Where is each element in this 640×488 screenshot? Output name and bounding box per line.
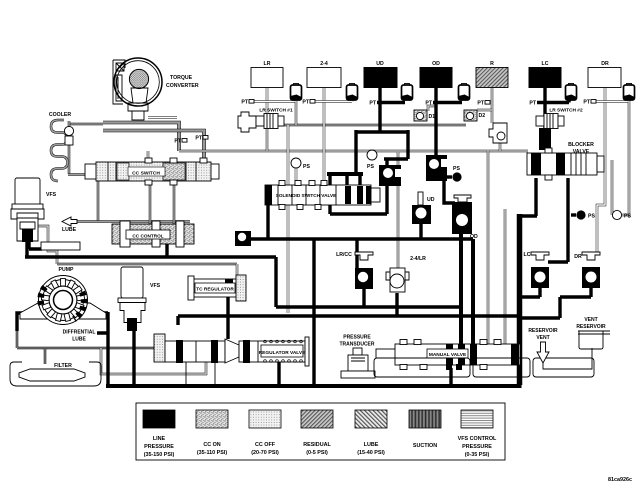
wire: LR clutch feed pipe	[266, 88, 269, 114]
valve REGULATOR VALVE	[154, 334, 309, 366]
wire: UD pressure tap bar	[377, 101, 405, 104]
pump inlet pipe	[41, 242, 80, 250]
wire: PS stub above solenoid switch valve	[295, 168, 298, 185]
relief valve on R line	[489, 123, 507, 143]
svg-text:TC REGULATOR: TC REGULATOR	[196, 287, 234, 293]
wire: blocker valve outlet drop	[520, 178, 537, 216]
wire: VFS2 output drop	[132, 330, 135, 386]
wire: LR pressure tap tee	[252, 99, 296, 102]
pressure transducer	[340, 335, 376, 379]
svg-text:REGULATOR VALVE: REGULATOR VALVE	[259, 350, 306, 356]
wire: OD ball outlet to manual valve	[459, 234, 463, 344]
svg-text:DR: DR	[601, 61, 609, 67]
wire: cooler outlet to lube line	[68, 175, 98, 222]
wire: DR clutch feed pipe	[597, 88, 605, 252]
svg-text:VFS: VFS	[46, 192, 57, 198]
legend swatch CC OFF	[249, 410, 281, 456]
check ball box 2	[426, 155, 447, 181]
svg-text:(20-70 PSI): (20-70 PSI)	[251, 450, 279, 456]
node: UD line junction y132	[356, 130, 408, 133]
legend swatch CC ON	[196, 410, 228, 456]
legend swatch RESIDUAL	[301, 410, 333, 456]
svg-text:PRESSURE: PRESSURE	[343, 335, 371, 341]
svg-text:LUBE: LUBE	[364, 442, 379, 448]
svg-text:CC CONTROL: CC CONTROL	[132, 234, 163, 239]
svg-text:CONVERTER: CONVERTER	[166, 83, 199, 89]
solenoid VFS 2	[118, 267, 161, 331]
check ball box 1	[379, 165, 401, 186]
clutch R	[476, 61, 508, 88]
clutch OD	[420, 61, 452, 88]
clutch UD	[364, 61, 397, 88]
check valve D1	[414, 110, 435, 121]
wire: bottom main trunk	[106, 384, 522, 388]
svg-text:(15-40 PSI): (15-40 PSI)	[357, 450, 385, 456]
svg-text:PT: PT	[529, 101, 536, 107]
check ball LR/CC	[336, 252, 373, 289]
wire: main fat line down right side	[517, 214, 523, 385]
wire: TC regulator output	[226, 296, 229, 339]
wire: blocker valve riser to LC funnel	[548, 178, 568, 262]
valve MANUAL VALVE	[376, 340, 520, 371]
clutch 2-4	[307, 61, 341, 88]
wire: solenoid switch valve riser pair	[287, 125, 290, 185]
svg-text:PS: PS	[303, 164, 310, 170]
reservoir vent arrow	[528, 328, 558, 363]
wire: UD clutch line down	[378, 88, 381, 132]
wire: trunk B y316	[178, 316, 520, 325]
valve CC CONTROL	[112, 221, 194, 247]
svg-text:LUBE: LUBE	[62, 227, 77, 233]
svg-text:PT: PT	[369, 101, 376, 107]
wire: UD ball outlet	[419, 222, 422, 239]
svg-text:PS: PS	[588, 214, 595, 220]
svg-text:LR/CC: LR/CC	[336, 252, 352, 258]
accumulator LC	[566, 84, 577, 101]
wire: manual valve gray feed right	[504, 209, 507, 344]
wire: suction trunk from filter to regulator valve	[17, 330, 155, 348]
wire: solenoid switch valve down pair	[287, 205, 290, 313]
svg-text:LR: LR	[264, 61, 271, 67]
accumulator 2-4	[347, 84, 358, 101]
wire: VFS1 output drop	[25, 240, 28, 257]
sump outline	[374, 358, 594, 377]
wire: T2 trunk y239	[243, 237, 473, 240]
wire: 2-4/LR ball outlet	[395, 293, 398, 316]
wire: trunk y257 from VFS to riser	[25, 257, 276, 307]
svg-text:COOLER: COOLER	[49, 112, 71, 118]
svg-text:BLOCKER: BLOCKER	[568, 142, 594, 148]
svg-text:CC SWITCH: CC SWITCH	[132, 171, 160, 177]
svg-text:PT: PT	[425, 101, 432, 107]
svg-text:PUMP: PUMP	[59, 267, 75, 273]
wire: LR/CC ball riser	[355, 239, 358, 270]
pressure switch PS white near solenoid valve	[291, 158, 310, 170]
svg-text:(35-110 PSI): (35-110 PSI)	[197, 450, 227, 456]
wire: R relief valve outlet	[499, 143, 502, 151]
wire: CC control output drop	[165, 244, 168, 257]
svg-text:RESERVOIR: RESERVOIR	[576, 324, 606, 330]
cooler	[49, 112, 74, 145]
wire: 2-4 clutch feed pipe	[323, 88, 326, 185]
wire: R clutch feed pipe	[491, 88, 494, 123]
wire: check box2 outlet down	[444, 181, 455, 203]
svg-text:D1: D1	[429, 114, 436, 120]
check ball at cc control outlet	[235, 231, 251, 246]
wire: check box1 outlet to T1 trunk	[330, 184, 387, 214]
wire: torque converter feed pipe lower	[103, 131, 204, 163]
svg-text:OD: OD	[432, 61, 440, 67]
svg-text:UD: UD	[376, 61, 384, 67]
svg-text:TRANSDUCER: TRANSDUCER	[340, 342, 375, 348]
wire: cooler orifice drop pipe	[68, 121, 71, 174]
check ball 2-4/LR	[386, 256, 426, 292]
wire: solenoid valve left cap drop	[266, 205, 269, 238]
check ball LC	[524, 252, 549, 288]
svg-text:FILTER: FILTER	[54, 363, 72, 369]
wire: LC pressure tap bar	[537, 99, 569, 103]
legend box	[136, 403, 505, 460]
wire: VFS1 inlet elbow at pump	[29, 242, 42, 249]
svg-text:LC: LC	[542, 61, 549, 67]
clutch LC	[529, 61, 561, 88]
wire: LC ball outlet	[520, 286, 540, 297]
accumulator UD	[402, 84, 413, 101]
wire: cc-off dotted trunk across middle	[179, 150, 528, 153]
wire: LR/CC ball outlet to trunk A	[362, 288, 365, 307]
check ball DR	[574, 252, 600, 288]
pump	[20, 267, 106, 325]
svg-text:LUBE: LUBE	[72, 337, 86, 343]
svg-text:DR: DR	[574, 254, 582, 260]
svg-text:2-4: 2-4	[320, 61, 328, 67]
svg-text:VFS: VFS	[150, 283, 161, 289]
svg-text:VENT: VENT	[584, 317, 597, 323]
pressure switch PS white right	[612, 210, 631, 219]
wire: manual valve drop to trunk	[449, 368, 452, 386]
wire: differential lube vertical	[106, 312, 109, 386]
port PT UD	[369, 101, 376, 107]
valve SOLENOID SWITCH VALVE	[265, 181, 380, 210]
svg-text:(0-35 PSI): (0-35 PSI)	[465, 452, 490, 458]
svg-text:SUCTION: SUCTION	[413, 443, 437, 449]
check ball UD	[412, 192, 435, 224]
switch LR SWITCH #1	[238, 108, 293, 133]
svg-text:PS: PS	[453, 166, 460, 172]
solenoid VFS 1	[11, 178, 57, 242]
svg-text:81ca926c: 81ca926c	[608, 477, 632, 483]
port PT DR	[583, 100, 596, 106]
wire: cc on dotted trunk y125	[240, 124, 466, 127]
port PT LR	[241, 100, 254, 106]
svg-text:PT: PT	[583, 100, 590, 106]
svg-text:PS: PS	[367, 164, 374, 170]
wire: D2 gray elbow	[477, 109, 492, 112]
valve TC REGULATOR	[188, 275, 246, 301]
svg-text:LR SWITCH #1: LR SWITCH #1	[259, 108, 293, 114]
legend swatch SUCTION	[409, 410, 441, 449]
svg-text:(0-5 PSI): (0-5 PSI)	[306, 450, 328, 456]
svg-text:CC OFF: CC OFF	[255, 442, 276, 448]
wire: T2 drop to bottom trunk	[312, 239, 315, 385]
wire: pump left frame	[17, 313, 25, 331]
svg-text:PT: PT	[302, 100, 309, 106]
svg-text:LR SWITCH #2: LR SWITCH #2	[549, 108, 583, 114]
svg-text:RESIDUAL: RESIDUAL	[303, 442, 331, 448]
svg-text:TORQUE: TORQUE	[170, 75, 193, 81]
accumulator OD	[459, 84, 470, 101]
svg-text:PRESSURE: PRESSURE	[462, 444, 492, 450]
wire: pump pedestal to lube line	[97, 313, 108, 333]
wire: VFS side pipe to cc-on trunk	[34, 226, 57, 264]
wire: cc-on dotted trunk y264	[57, 263, 237, 266]
svg-text:OD: OD	[470, 234, 478, 240]
valve CC SWITCH	[85, 158, 219, 185]
switch LR SWITCH #2	[536, 108, 583, 151]
pressure switch PS white above valve	[367, 150, 377, 170]
check ball OD	[452, 195, 478, 240]
svg-text:PS: PS	[624, 214, 631, 220]
svg-text:PT: PT	[241, 100, 248, 106]
wire: D1 gray elbow	[428, 106, 436, 111]
label differential lube	[63, 330, 96, 343]
svg-text:MANUAL VALVE: MANUAL VALVE	[429, 352, 467, 358]
pressure switch PS black right of check box2	[447, 166, 462, 182]
wire: 2-4/LR ball riser pipe	[397, 152, 400, 268]
svg-text:VFS CONTROL: VFS CONTROL	[458, 436, 497, 442]
legend swatch LINE	[143, 410, 175, 458]
clutch LR	[251, 61, 283, 88]
wire: DR accumulator drop to PS	[622, 102, 629, 216]
wire: torque converter feed pipe upper	[103, 123, 179, 152]
wire: vent reservoir drain line	[543, 348, 592, 369]
pressure switch PS black below blocker	[571, 210, 595, 219]
svg-text:D2: D2	[479, 113, 486, 119]
wire: riser to solenoid valve tee	[354, 130, 357, 174]
wire: R line drop to manual valve	[487, 151, 490, 344]
svg-text:PRESSURE: PRESSURE	[144, 444, 174, 450]
svg-text:LC: LC	[524, 252, 531, 258]
wire: DR pressure tap tee	[591, 99, 629, 102]
svg-text:(35-150 PSI): (35-150 PSI)	[144, 452, 175, 458]
svg-text:SOLENOID SWITCH VALVE: SOLENOID SWITCH VALVE	[276, 193, 337, 198]
valve BLOCKER VALVE	[527, 142, 604, 180]
wire: lube line to lube arrow	[76, 220, 190, 223]
wire: drop to check box 1	[384, 130, 408, 167]
wire: 2-4 pressure tap tee	[310, 99, 352, 102]
legend swatch VFS	[458, 410, 497, 458]
svg-text:PT: PT	[195, 136, 202, 142]
svg-text:PT: PT	[174, 139, 181, 145]
wire: TC regulator gray inlet	[236, 264, 239, 277]
svg-text:VENT: VENT	[536, 335, 549, 341]
wire: blocker valve side pipe	[612, 160, 620, 215]
wire: regulator valve cc return pipe	[101, 348, 206, 374]
wire: cooler coil serpentine	[51, 120, 68, 181]
clutch DR	[588, 61, 621, 88]
wire: DR ball outlet stepped path	[520, 286, 591, 318]
wire: OD pressure tap bar	[433, 101, 462, 104]
legend swatch LUBE	[355, 410, 387, 456]
wire: cc switch to cc control pipes	[149, 181, 152, 224]
wire: regulator valve bottom stubs	[186, 362, 215, 386]
wire: cc switch upper port pipe	[147, 151, 150, 162]
wire: cooler inlet pipe from torque converter	[69, 123, 103, 126]
wire: converter shaft pipe pair	[148, 116, 177, 119]
wire: trunk A y307	[276, 305, 461, 308]
check valve D2	[464, 110, 485, 121]
port PT OD	[425, 101, 432, 107]
svg-text:2-4/LR: 2-4/LR	[410, 256, 426, 262]
port PT LC	[529, 101, 536, 107]
port PT 2-4	[302, 100, 315, 106]
wire: filter suction stub	[44, 348, 47, 364]
wire: solenoid valve port drops	[330, 174, 360, 186]
wire: OD clutch line down	[434, 88, 437, 157]
port PT converter out 2	[195, 136, 208, 142]
svg-text:CC ON: CC ON	[203, 442, 220, 448]
port PT R	[477, 101, 490, 107]
wire: T2 right end drop to manual valve	[471, 239, 475, 344]
accumulator LR	[291, 84, 302, 101]
lube outlet arrow	[62, 217, 77, 233]
svg-text:LINE: LINE	[153, 436, 166, 442]
svg-text:UD: UD	[427, 197, 435, 203]
svg-text:PT: PT	[477, 101, 484, 107]
svg-text:DIFFRENTIAL: DIFFRENTIAL	[63, 330, 96, 336]
wire: LR switch 1 lower pipe	[266, 128, 269, 151]
svg-text:R: R	[490, 61, 494, 67]
wire: LR accumulator riser	[295, 102, 298, 126]
wire: LC clutch line through LR switch 2	[543, 88, 546, 150]
vent reservoir	[576, 317, 610, 349]
torque converter	[113, 58, 199, 120]
svg-text:RESERVOIR: RESERVOIR	[528, 328, 558, 334]
port PT converter out 1	[174, 139, 187, 145]
wire: solenoid valve top tee bar	[327, 172, 363, 176]
filter	[10, 362, 101, 386]
accumulator DR	[624, 84, 635, 101]
